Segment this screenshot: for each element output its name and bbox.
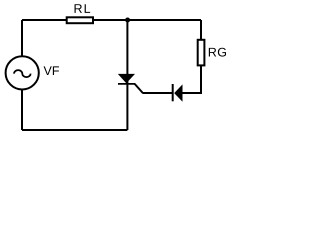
thyristor anode triangle	[118, 74, 135, 83]
label RG	[209, 48, 226, 57]
wire diode anode to corner	[182, 92, 202, 94]
wire gate horizontal	[143, 92, 173, 94]
diode triangle	[174, 84, 182, 101]
source VF sine symbol	[14, 70, 31, 77]
wire bottom rail	[22, 129, 127, 131]
wire center vertical thyristor branch	[126, 20, 128, 130]
diode cathode bar	[172, 84, 174, 101]
wire left vertical source bottom lead	[21, 90, 23, 131]
label VF	[44, 66, 59, 75]
thyristor cathode bar	[118, 83, 135, 85]
wire gate diagonal	[135, 84, 143, 93]
label RL	[75, 4, 91, 13]
resistor RG body	[198, 40, 205, 66]
node junction dot	[125, 18, 130, 23]
source VF circle	[6, 56, 39, 89]
wire RG bottom lead	[200, 66, 202, 93]
wire top rail	[22, 19, 201, 21]
wire left vertical source top lead	[21, 20, 23, 57]
wire right vertical to RG top	[200, 20, 202, 40]
resistor RL body	[67, 17, 93, 23]
